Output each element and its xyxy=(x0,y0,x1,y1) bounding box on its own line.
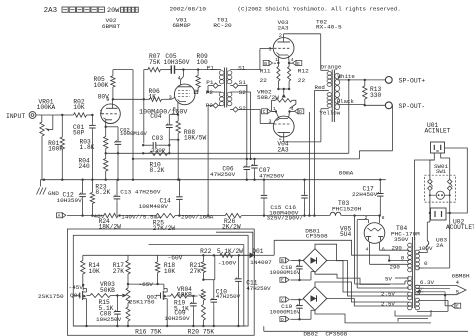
label P1 b xyxy=(206,79,214,86)
label 2SK1750 Q01 xyxy=(38,292,81,300)
label R23 8.2K xyxy=(95,184,110,197)
label C09 10M250V xyxy=(164,309,190,322)
svg-text:SW1: SW1 xyxy=(436,169,446,175)
T02 winding P1 xyxy=(327,72,332,87)
tag B bridge1 xyxy=(280,258,303,264)
wire R08 bottom to gnd xyxy=(177,140,179,180)
label R11 22 xyxy=(260,67,271,83)
tag E bridge1 xyxy=(280,272,315,284)
wiper arrow VR03 xyxy=(117,294,126,298)
svg-text:C: C xyxy=(263,109,266,115)
svg-text:RX-40-5: RX-40-5 xyxy=(316,24,342,31)
svg-text:10000M16V: 10000M16V xyxy=(270,309,301,316)
wire HV taps xyxy=(0,0,1,1)
svg-text:27K: 27K xyxy=(190,268,202,275)
wire bridge1 bottom link xyxy=(315,272,390,284)
switch pole 2 xyxy=(447,175,452,202)
svg-text:6.3V: 6.3V xyxy=(420,279,435,286)
svg-text:290V/16mA: 290V/16mA xyxy=(181,214,214,221)
label 0 mid xyxy=(401,255,405,262)
capacitor C11 xyxy=(235,255,242,327)
svg-text:-65V: -65V xyxy=(139,281,154,288)
svg-text:5: 5 xyxy=(456,289,459,295)
wire input to pot top xyxy=(41,115,43,122)
label INPUT xyxy=(6,113,25,120)
resistor R09 screen xyxy=(195,70,200,92)
resistor R18 xyxy=(155,255,159,284)
label GND xyxy=(48,190,59,197)
diode D01 xyxy=(239,252,264,258)
pin 2 8 labels V05 xyxy=(365,215,385,221)
wire outlet right down xyxy=(425,212,451,268)
T04 winding heater xyxy=(415,285,419,295)
bias wire wrap xyxy=(216,232,253,255)
svg-text:8.2K: 8.2K xyxy=(150,167,165,174)
svg-text:1N4007: 1N4007 xyxy=(250,259,272,266)
label R05 100K xyxy=(94,76,109,89)
label 40V xyxy=(94,213,105,220)
svg-text:50P: 50P xyxy=(73,129,85,136)
node R19 right xyxy=(192,295,194,297)
svg-text:100V: 100V xyxy=(418,245,433,252)
wire 309 down xyxy=(308,112,310,217)
wire yellow xyxy=(321,108,329,110)
resistor R11 xyxy=(277,63,280,89)
svg-text:10K: 10K xyxy=(73,104,85,111)
choke T03 xyxy=(330,212,341,215)
svg-text:75K: 75K xyxy=(149,59,161,66)
T04 winding 2.5V b xyxy=(408,302,412,310)
T02 winding S xyxy=(335,73,340,110)
capacitor C08 xyxy=(114,296,121,328)
svg-text:22H450V: 22H450V xyxy=(352,191,378,198)
switch box SW01 xyxy=(425,175,456,202)
label C13 47M250V xyxy=(120,188,161,195)
nfb line to speaker xyxy=(143,80,349,153)
label R16 75K xyxy=(135,329,162,336)
svg-text:6: 6 xyxy=(382,246,385,252)
label 0 primary xyxy=(424,260,428,267)
svg-text:-100V: -100V xyxy=(218,259,237,266)
label R21 27K xyxy=(190,262,202,275)
svg-text:B: B xyxy=(281,258,284,264)
svg-text:GND: GND xyxy=(48,190,59,197)
svg-text:4: 4 xyxy=(178,76,181,82)
T04 winding right bottom xyxy=(415,298,419,310)
svg-text:50KB: 50KB xyxy=(177,291,192,298)
label Red xyxy=(315,84,325,91)
pin 4 label V01 plate xyxy=(178,76,181,82)
label T04 PMC-170M 350V xyxy=(391,225,420,243)
svg-text:2.5V: 2.5V xyxy=(381,300,396,307)
pin 2 label V03 plate xyxy=(279,33,282,39)
capacitor C01 xyxy=(89,115,96,180)
svg-text:RC-20: RC-20 xyxy=(213,22,232,29)
wire V04 plate to T02 yellow xyxy=(284,109,321,142)
svg-text:2: 2 xyxy=(365,215,368,221)
label 6.3V xyxy=(420,279,435,286)
svg-text:10H350V: 10H350V xyxy=(57,197,83,204)
resistor R15 xyxy=(87,294,118,298)
pin labels V03 filament xyxy=(275,57,293,63)
svg-text:R12: R12 xyxy=(298,67,309,74)
svg-text:P1: P1 xyxy=(207,64,215,71)
svg-text:10H250V: 10H250V xyxy=(96,316,122,323)
pin 9 label V02 plate xyxy=(106,97,109,103)
label White xyxy=(338,73,355,80)
wire S2b to V04 grid xyxy=(260,110,273,124)
capacitor C18 xyxy=(296,261,303,281)
svg-text:A: A xyxy=(58,213,61,219)
svg-text:(C)2002 Shoichi Yoshimoto. All: (C)2002 Shoichi Yoshimoto. All rights re… xyxy=(238,5,401,12)
wire P1a xyxy=(210,69,221,71)
node V01 cathode xyxy=(177,113,179,115)
AC inlet U01 xyxy=(431,142,445,153)
node R09 top xyxy=(197,68,199,70)
pin 2 label V04 plate xyxy=(279,136,282,142)
label C12 10M350V xyxy=(57,192,83,205)
label T02 RX-40-5 xyxy=(316,19,342,31)
svg-text:E: E xyxy=(456,304,459,310)
T02 winding P2 xyxy=(327,93,332,108)
wire V03 plate to T02 xyxy=(284,34,321,71)
label U01 ACINLET xyxy=(425,122,451,135)
label 290V/16mA xyxy=(181,214,214,221)
date text xyxy=(170,5,207,12)
box rail top xyxy=(83,254,253,256)
wire switch to outlet xyxy=(430,202,450,213)
label 100M400/160V xyxy=(139,109,187,116)
svg-text:47H250V: 47H250V xyxy=(259,173,285,180)
label R18 10K xyxy=(164,262,176,275)
T04 winding HV xyxy=(408,243,412,272)
wire to SP-OUT+ xyxy=(365,79,386,81)
T01 winding P bottom xyxy=(219,92,224,106)
label Black xyxy=(337,98,355,105)
switch pole 1 xyxy=(428,175,433,202)
tag B V03 xyxy=(263,61,276,67)
label U03 2A xyxy=(436,237,447,250)
svg-text:10000M16V: 10000M16V xyxy=(270,269,301,276)
wire plate to R07 riser xyxy=(143,70,145,144)
box bottom rail xyxy=(73,325,246,327)
label 6BM8H xyxy=(452,273,471,280)
svg-text:290: 290 xyxy=(390,264,401,271)
wire inlet pins to switch xyxy=(430,153,450,175)
svg-text:S2: S2 xyxy=(239,105,247,112)
label R07 75K xyxy=(149,53,161,66)
svg-text:2A3: 2A3 xyxy=(44,7,57,15)
svg-text:5.1K/2W: 5.1K/2W xyxy=(217,248,243,255)
label P2 a xyxy=(206,89,214,96)
svg-text:P1: P1 xyxy=(206,79,214,86)
svg-text:D: D xyxy=(299,109,302,115)
wire plates to T04 HV xyxy=(370,250,410,264)
svg-text:SP-OUT+: SP-OUT+ xyxy=(399,78,426,85)
resistor R21 xyxy=(201,254,205,281)
label P2 b xyxy=(206,102,214,109)
svg-text:6BM8T: 6BM8T xyxy=(102,23,121,30)
svg-text:22: 22 xyxy=(298,77,306,84)
svg-text:C04: C04 xyxy=(150,113,162,120)
label S1 a xyxy=(238,64,246,71)
wire VR01 wiper up xyxy=(52,115,54,130)
label Yellow xyxy=(319,109,340,116)
wire S2a xyxy=(230,91,250,93)
svg-text:DB02 CP3508: DB02 CP3508 xyxy=(303,331,347,336)
svg-text:CP3508: CP3508 xyxy=(306,233,328,240)
label DB01 CP3508 xyxy=(305,228,328,240)
label R25 27K/2W xyxy=(153,220,176,232)
svg-text:3: 3 xyxy=(169,95,172,101)
resistor R17 xyxy=(126,255,130,284)
label R17 27K xyxy=(113,262,125,275)
resistor R24 xyxy=(104,213,118,217)
svg-text:ACINLET: ACINLET xyxy=(425,128,451,135)
svg-text:1: 1 xyxy=(275,57,278,63)
resistor R01 xyxy=(60,115,64,180)
T02 core xyxy=(332,70,334,123)
svg-text:5U4: 5U4 xyxy=(340,231,352,238)
tube V03 2A3 xyxy=(273,34,294,59)
label V04 2A3 xyxy=(277,141,289,154)
svg-text:10K: 10K xyxy=(89,268,101,275)
label SP-OUT+ xyxy=(399,78,426,85)
V05 plate pins down xyxy=(370,243,380,265)
wire R21 VR04 to C10 xyxy=(203,255,214,279)
neon lamp xyxy=(429,191,451,199)
label 290 bot xyxy=(390,264,401,271)
pin 4 6 labels V05 xyxy=(366,246,385,252)
capacitor C09 xyxy=(190,296,197,327)
wire outlet taps xyxy=(430,212,450,214)
label R13 330 xyxy=(370,86,382,99)
fuse U03 xyxy=(426,241,429,251)
capacitor C15 xyxy=(261,180,268,217)
resistor R22 xyxy=(213,253,240,257)
label R04 240 xyxy=(79,157,91,170)
resistor R13 xyxy=(363,80,367,105)
svg-text:100K: 100K xyxy=(94,82,109,89)
capacitor C03 xyxy=(142,142,171,149)
wire bridge2 right ac xyxy=(327,299,395,307)
svg-text:100M400V: 100M400V xyxy=(139,203,169,210)
label S1 b xyxy=(239,79,247,86)
wire white xyxy=(338,79,366,81)
resistor R02 xyxy=(74,113,87,117)
potentiometer VR04 xyxy=(201,290,205,301)
wire top line R07 segment xyxy=(144,69,148,71)
svg-text:Black: Black xyxy=(337,98,355,105)
svg-text:2: 2 xyxy=(279,33,282,39)
tag D bridge2 xyxy=(280,310,315,323)
node R08 bottom xyxy=(177,139,179,141)
node C14 top xyxy=(178,179,180,181)
bridge rectifier DB01 xyxy=(303,249,327,273)
wire 25b taps xyxy=(395,302,409,306)
label R01 100K xyxy=(48,140,63,153)
svg-text:S2: S2 xyxy=(239,89,247,96)
wire plate line xyxy=(113,98,144,100)
label C08 10M250V xyxy=(96,310,122,323)
diamond P2b xyxy=(208,103,221,108)
wire B+ top line left xyxy=(113,69,133,71)
label 80V xyxy=(98,93,110,100)
resistor R10 xyxy=(142,140,171,156)
svg-text:C03: C03 xyxy=(152,135,164,142)
wiper arrow VR04 xyxy=(193,294,202,298)
T01 winding S top xyxy=(227,71,232,84)
wire bridge2 top ac xyxy=(315,282,395,302)
label C17 22M450V xyxy=(352,185,378,197)
wire fuse to T04 xyxy=(425,251,427,253)
svg-text:47H250V: 47H250V xyxy=(210,171,236,178)
potentiometer VR01 xyxy=(40,122,53,136)
label S2 a xyxy=(239,89,247,96)
svg-text:27K: 27K xyxy=(113,268,125,275)
vacuum tube V02 triode xyxy=(101,99,121,127)
capacitor C05 series xyxy=(171,65,183,73)
outer box xyxy=(67,229,254,335)
resistor R20 xyxy=(201,300,205,327)
gnd bus dots xyxy=(43,179,382,181)
rail wire xyxy=(67,215,380,217)
label 325V/290V xyxy=(267,215,304,222)
wire rail stub down xyxy=(355,216,395,284)
bias line corner up xyxy=(359,105,392,159)
label R22 5.1K/2W xyxy=(200,248,243,255)
diamond P1b xyxy=(208,83,221,88)
bridge rectifier DB02 xyxy=(303,287,327,311)
capacitor C13 xyxy=(113,180,120,216)
resistor R07 xyxy=(148,67,161,71)
wire R06 left xyxy=(144,98,150,100)
node grid junction xyxy=(61,114,63,116)
wire S mid down C06 xyxy=(246,85,248,161)
label Orange xyxy=(321,64,342,71)
tag C V04 xyxy=(262,109,276,115)
label VR03 50KB xyxy=(100,281,115,294)
pin 5 heater xyxy=(456,289,459,295)
tag E heater xyxy=(445,295,461,309)
label R10 8.2K xyxy=(150,161,165,173)
wire P2a xyxy=(207,86,221,94)
svg-text:50KB: 50KB xyxy=(100,287,115,294)
wire y284 link xyxy=(128,283,164,285)
label -45V xyxy=(69,284,84,291)
right bottom loop xyxy=(417,300,448,311)
wire inlet left down xyxy=(415,153,435,240)
svg-text:ACOUTLET: ACOUTLET xyxy=(446,224,474,231)
label 140V/5.5mA xyxy=(121,214,161,221)
label 100V xyxy=(418,245,433,252)
svg-text:6BM8H: 6BM8H xyxy=(452,273,471,280)
svg-text:2SK1750: 2SK1750 xyxy=(38,293,64,300)
V04 filament pins xyxy=(275,110,291,118)
label R09 100 xyxy=(197,53,209,66)
label SW01 xyxy=(434,163,449,175)
svg-text:-45V: -45V xyxy=(69,284,84,291)
diamond S2b xyxy=(230,107,260,112)
potentiometer VR02 xyxy=(272,89,296,112)
svg-text:47H250V: 47H250V xyxy=(216,293,241,300)
label VR01 100KA xyxy=(37,98,56,110)
svg-text:C13 47H250V: C13 47H250V xyxy=(120,188,161,195)
diamond S1b xyxy=(230,83,247,92)
label C18 10000M16V xyxy=(270,264,301,276)
V03 filament leads xyxy=(277,56,290,65)
svg-text:White: White xyxy=(338,73,355,80)
svg-text:9: 9 xyxy=(106,97,109,103)
svg-text:8: 8 xyxy=(382,215,385,221)
label R08 10K/5W xyxy=(184,129,207,142)
resistor R23 xyxy=(90,180,94,216)
svg-text:2A: 2A xyxy=(436,242,444,249)
svg-text:SP-OUT-: SP-OUT- xyxy=(399,103,426,110)
node V02 cathode junction xyxy=(105,126,107,128)
svg-text:E: E xyxy=(297,61,300,67)
node R03 R04 xyxy=(105,152,107,154)
hum balance bottom wire xyxy=(277,88,290,90)
wire primary taps xyxy=(418,253,425,269)
wire to P1a xyxy=(183,69,217,71)
label C02 1000M16V xyxy=(120,127,148,137)
label -100V xyxy=(218,259,237,266)
svg-text:20W: 20W xyxy=(107,7,119,14)
capacitor C02 xyxy=(106,127,122,180)
svg-text:330: 330 xyxy=(370,92,382,99)
wire bridge1 top ac xyxy=(315,244,395,292)
svg-text:290: 290 xyxy=(392,244,403,251)
pin 1 label V02 grid xyxy=(100,109,103,115)
svg-text:2002/08/10: 2002/08/10 xyxy=(170,5,207,12)
label R12 22 xyxy=(298,67,309,83)
wire pot bottom to gnd xyxy=(42,136,44,180)
svg-text:E: E xyxy=(281,278,284,284)
svg-text:2.5V: 2.5V xyxy=(381,291,396,298)
label 290 top xyxy=(392,244,403,251)
label T01 RC-20 xyxy=(213,16,232,29)
heater arrow 6BM8 xyxy=(415,285,466,296)
wire red xyxy=(314,90,328,92)
wire S1a to V03 grid xyxy=(230,49,273,70)
wire unswitched bypass xyxy=(445,148,468,213)
svg-text:D: D xyxy=(281,317,284,323)
title text 2A3 push-pull 20W mono amp xyxy=(44,7,139,15)
label R14 10K xyxy=(89,262,101,275)
pentode V01 xyxy=(174,80,197,115)
svg-text:27K/2W: 27K/2W xyxy=(153,225,176,232)
label VR04 50KB xyxy=(177,286,192,298)
wire nfb line y153 xyxy=(106,152,144,154)
mosfet Q01 xyxy=(73,284,86,302)
capacitor C12 xyxy=(79,180,86,216)
ground symbol xyxy=(37,188,47,195)
pin 3 label V03 grid xyxy=(268,47,271,53)
capacitor C14 xyxy=(176,180,183,216)
svg-text:100KA: 100KA xyxy=(37,104,56,111)
pin 3 label V01 grid xyxy=(169,95,172,101)
label C14 100M400V xyxy=(139,198,172,210)
svg-text:2A3: 2A3 xyxy=(278,24,289,31)
capacitor C17 xyxy=(377,180,384,216)
T01 winding P top xyxy=(219,71,224,84)
svg-text:INPUT: INPUT xyxy=(6,113,25,120)
label 330P xyxy=(151,147,166,154)
node C01 top xyxy=(91,114,93,116)
label D01 1N4007 xyxy=(250,248,272,266)
wire D01 up xyxy=(264,240,409,261)
